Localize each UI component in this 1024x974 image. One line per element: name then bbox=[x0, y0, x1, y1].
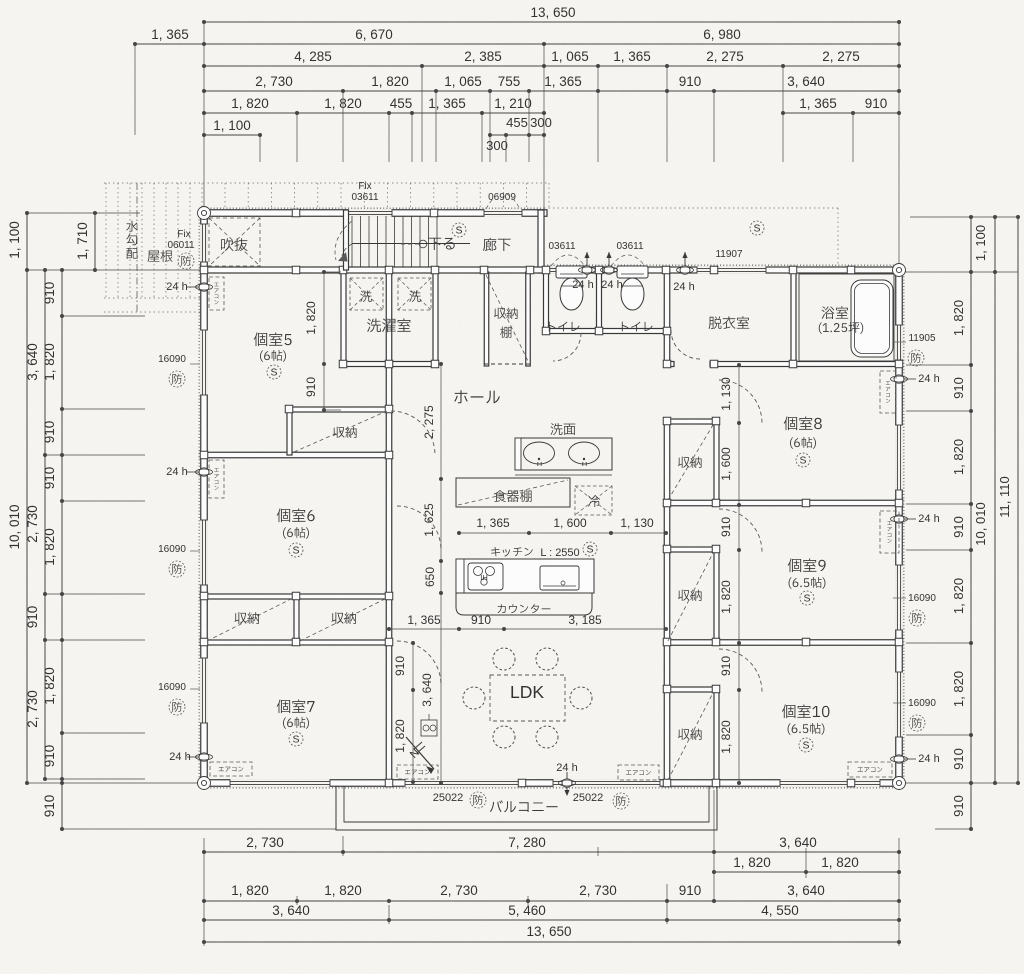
windows on corridor wall above toilets 03611 bbox=[549, 266, 588, 273]
wall: central vertical x=667 upper bbox=[664, 270, 670, 364]
window bottom bedroom7 bbox=[231, 779, 330, 787]
label bedroom5 bbox=[254, 332, 292, 346]
wall: bedroom10 closet top bbox=[664, 687, 719, 692]
dining table bbox=[490, 675, 565, 721]
washbasin counter bbox=[515, 438, 612, 470]
exterior wall: right bbox=[896, 267, 903, 786]
24h vents right wall bbox=[894, 375, 904, 383]
label mizukoubai (water slope) bbox=[126, 221, 138, 232]
wall: bedroom9 closet right bbox=[714, 547, 719, 645]
top dimension lines bbox=[133, 5, 901, 265]
label bedroom9 bbox=[788, 558, 826, 572]
label bedroom10 bbox=[782, 704, 830, 718]
wall: central vertical x=667 lower bbox=[664, 419, 670, 783]
wall: closet band divider bbox=[294, 594, 299, 645]
interior dims right rooms column x=739 bbox=[738, 365, 740, 783]
label rouka (corridor) bbox=[483, 238, 511, 251]
bottom dimension lines bbox=[202, 790, 901, 946]
label yane (roof) bbox=[147, 250, 172, 262]
wall: bedroom5 closet left bbox=[287, 407, 292, 455]
wall: bedroom8/9 boundary bbox=[664, 500, 902, 506]
interior dims hall column x=441 bbox=[440, 364, 442, 783]
label dressing room bbox=[709, 316, 750, 329]
posts bbox=[292, 209, 300, 217]
washing machines bbox=[350, 278, 383, 310]
wall: bedroom8 closet right bbox=[714, 419, 719, 503]
stair wall piece bbox=[344, 210, 349, 270]
wall: main horizontal below corridor / top of right section bbox=[201, 267, 902, 273]
interior dims washbasin row bbox=[459, 532, 667, 534]
exterior wall: left bbox=[201, 210, 208, 786]
window left wall bedroom6 bbox=[200, 521, 208, 585]
comb hatch on exterior walls bbox=[204, 207, 544, 209]
label balcony bbox=[490, 800, 558, 812]
window 11907 dressing room top bbox=[698, 266, 766, 273]
label hall bbox=[454, 390, 500, 403]
wall: toilet left bbox=[544, 270, 549, 333]
dish shelf bbox=[456, 478, 570, 507]
wall: bedroom6/7 closet band bottom bbox=[201, 640, 391, 645]
label toilet 2 bbox=[622, 322, 653, 332]
wall: bedroom10 closet right bbox=[714, 687, 719, 783]
stairs bbox=[352, 216, 470, 267]
window Fix03611 top wall bbox=[349, 209, 392, 217]
chairs bbox=[493, 648, 515, 670]
bedroom8 closet bbox=[668, 425, 713, 500]
door arcs bbox=[391, 411, 435, 455]
bedroom9 closet bbox=[668, 553, 713, 641]
kitchen counter bbox=[456, 559, 594, 593]
toilet 1 bbox=[556, 266, 587, 278]
atrium (fukinuke) dashed X bbox=[209, 218, 260, 266]
window 06909 top wall bbox=[485, 209, 522, 217]
wall: bedroom6/7 closet band top bbox=[201, 594, 391, 599]
label bedroom7 bbox=[277, 699, 315, 713]
window right wall bath 11905 bbox=[895, 326, 903, 360]
refrigerator bbox=[575, 486, 612, 515]
storage shelf (shuunou-dana) box bbox=[484, 272, 489, 366]
wall: dressing/bath divider bbox=[791, 270, 796, 364]
label bedroom8 bbox=[784, 416, 822, 430]
wall: below toilets bbox=[544, 329, 669, 334]
bedroom10 closet bbox=[668, 693, 713, 780]
wall: corridor right end bbox=[538, 210, 544, 273]
window bottom LDK sliding doors 25022 bbox=[406, 779, 520, 787]
stair down arrow bbox=[419, 240, 427, 248]
window left wall bedroom5 bbox=[200, 331, 208, 395]
window left wall bedroom7 bbox=[200, 659, 208, 723]
storage shelf diagonal + label bbox=[486, 275, 528, 361]
label oriru (go down) bbox=[428, 238, 454, 250]
24h vents left wall bbox=[199, 283, 209, 291]
window Fix06011 left wall bbox=[200, 225, 208, 262]
label laundry room bbox=[367, 318, 411, 332]
wall: laundry bottom bbox=[341, 362, 438, 367]
label kitchen L:2550 bbox=[491, 547, 533, 557]
wall: bedroom8 closet top bbox=[664, 419, 719, 424]
label bedroom6 bbox=[277, 508, 315, 522]
TV outlet bbox=[421, 720, 437, 736]
wall: bedroom5/6 boundary bbox=[201, 452, 391, 458]
north arrow bbox=[406, 737, 434, 769]
balcony bbox=[336, 786, 717, 830]
wall: laundry left bbox=[341, 270, 346, 366]
right dimension lines bbox=[905, 215, 1020, 831]
wall: bedroom5 closet top bbox=[287, 407, 391, 412]
24h vents corridor wall bbox=[586, 252, 588, 268]
interior dims kitchen row bbox=[389, 628, 667, 630]
toilet 2 bbox=[617, 266, 648, 278]
bedroom6/7 closets bbox=[207, 598, 293, 641]
AC unit boxes (eakon) bbox=[209, 277, 224, 310]
label washbasin bbox=[551, 423, 576, 435]
24h vent bottom (balcony) bbox=[566, 772, 568, 792]
fire mark bou bbox=[178, 253, 194, 269]
interior dims laundry column bbox=[323, 272, 325, 410]
window bottom bedroom10 bbox=[781, 779, 880, 787]
wall: dressing/bath bottom bbox=[664, 362, 674, 367]
label toilet 1 bbox=[549, 322, 580, 332]
interior dims x=413 bbox=[412, 643, 414, 782]
roof edge dash-dot bbox=[136, 183, 138, 312]
exterior wall: bottom bbox=[201, 780, 902, 787]
bath room tub bbox=[799, 274, 894, 361]
wall: bedroom9 closet top bbox=[664, 547, 719, 552]
wall: toilet divider bbox=[597, 270, 602, 333]
window right wall bedroom9 bbox=[895, 566, 903, 630]
exterior wall: upper band (stairs hall) top bbox=[201, 210, 547, 217]
wall: bedroom9/10 boundary bbox=[664, 640, 902, 646]
roof eaves hatching bbox=[104, 183, 838, 312]
wall: laundry right bbox=[433, 270, 438, 366]
window right wall bedroom10 bbox=[895, 673, 903, 737]
wall: bedroom5/6 left column divider x=389 bbox=[386, 270, 392, 783]
counter bbox=[456, 593, 592, 615]
window right wall bedroom8 bbox=[895, 426, 903, 490]
left dimension lines bbox=[7, 211, 336, 831]
label bath bbox=[822, 306, 849, 319]
bedroom5 closet bbox=[294, 411, 387, 452]
corner pillars bbox=[198, 207, 211, 220]
